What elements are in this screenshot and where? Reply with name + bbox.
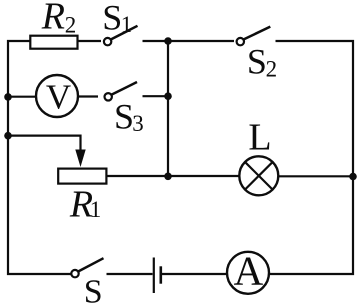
wire: S1 to node N1 xyxy=(143,40,169,42)
svg-text:S: S xyxy=(247,41,267,81)
junction node N1: top wire / middle bus xyxy=(164,37,172,45)
wire: battery to ammeter xyxy=(162,273,227,275)
switch S2 xyxy=(237,27,271,46)
svg-text:2: 2 xyxy=(266,57,278,82)
switch S xyxy=(71,258,103,277)
wire: voltmeter to S3 xyxy=(78,95,98,97)
wire: left bus to voltmeter xyxy=(8,96,36,98)
svg-text:A: A xyxy=(234,248,264,294)
resistor R2 xyxy=(30,36,77,49)
switch S1 xyxy=(104,26,138,46)
svg-text:S: S xyxy=(114,97,134,137)
wire: node N3 to lamp xyxy=(168,175,240,177)
junction node: left bus / wiper branch xyxy=(4,132,12,140)
wire: S to battery xyxy=(107,273,153,275)
svg-text:3: 3 xyxy=(132,111,144,136)
wire: middle vertical bus N1 to N3 xyxy=(167,41,169,176)
junction node: left bus / voltmeter xyxy=(4,93,12,101)
lamp L xyxy=(239,156,278,195)
junction node: lamp wire / right bus xyxy=(349,173,357,181)
wire: S2 to right bus xyxy=(276,41,354,177)
svg-text:S: S xyxy=(84,274,103,305)
ammeter A xyxy=(227,252,269,294)
wire: S3 to node N2 xyxy=(143,95,169,97)
battery cell: long plate xyxy=(153,258,155,294)
svg-text:S: S xyxy=(102,0,122,37)
wire: lamp to right bus xyxy=(278,175,353,177)
svg-text:L: L xyxy=(248,116,271,158)
junction node N2: S3 / middle bus xyxy=(164,92,172,100)
svg-text:1: 1 xyxy=(121,12,133,37)
svg-text:V: V xyxy=(46,78,71,117)
wire: R1 to node N3 xyxy=(108,175,169,177)
wire: R2 to S1 xyxy=(78,40,101,42)
wire: left vertical bus xyxy=(8,41,72,274)
rheostat R1 body xyxy=(58,169,106,184)
wire: node N1 to S2 xyxy=(168,40,234,42)
switch S3 xyxy=(105,82,138,101)
svg-text:1: 1 xyxy=(90,197,102,222)
battery cell: short plate xyxy=(160,266,163,283)
wire: left bus to rheostat wiper xyxy=(8,136,81,152)
wire: right bus lower half xyxy=(269,177,353,275)
svg-text:R: R xyxy=(41,0,65,38)
junction node N3: middle bus / lamp wire xyxy=(164,173,172,181)
voltmeter V xyxy=(36,75,78,117)
svg-text:2: 2 xyxy=(65,12,77,37)
rheostat wiper arrowhead xyxy=(75,150,85,168)
